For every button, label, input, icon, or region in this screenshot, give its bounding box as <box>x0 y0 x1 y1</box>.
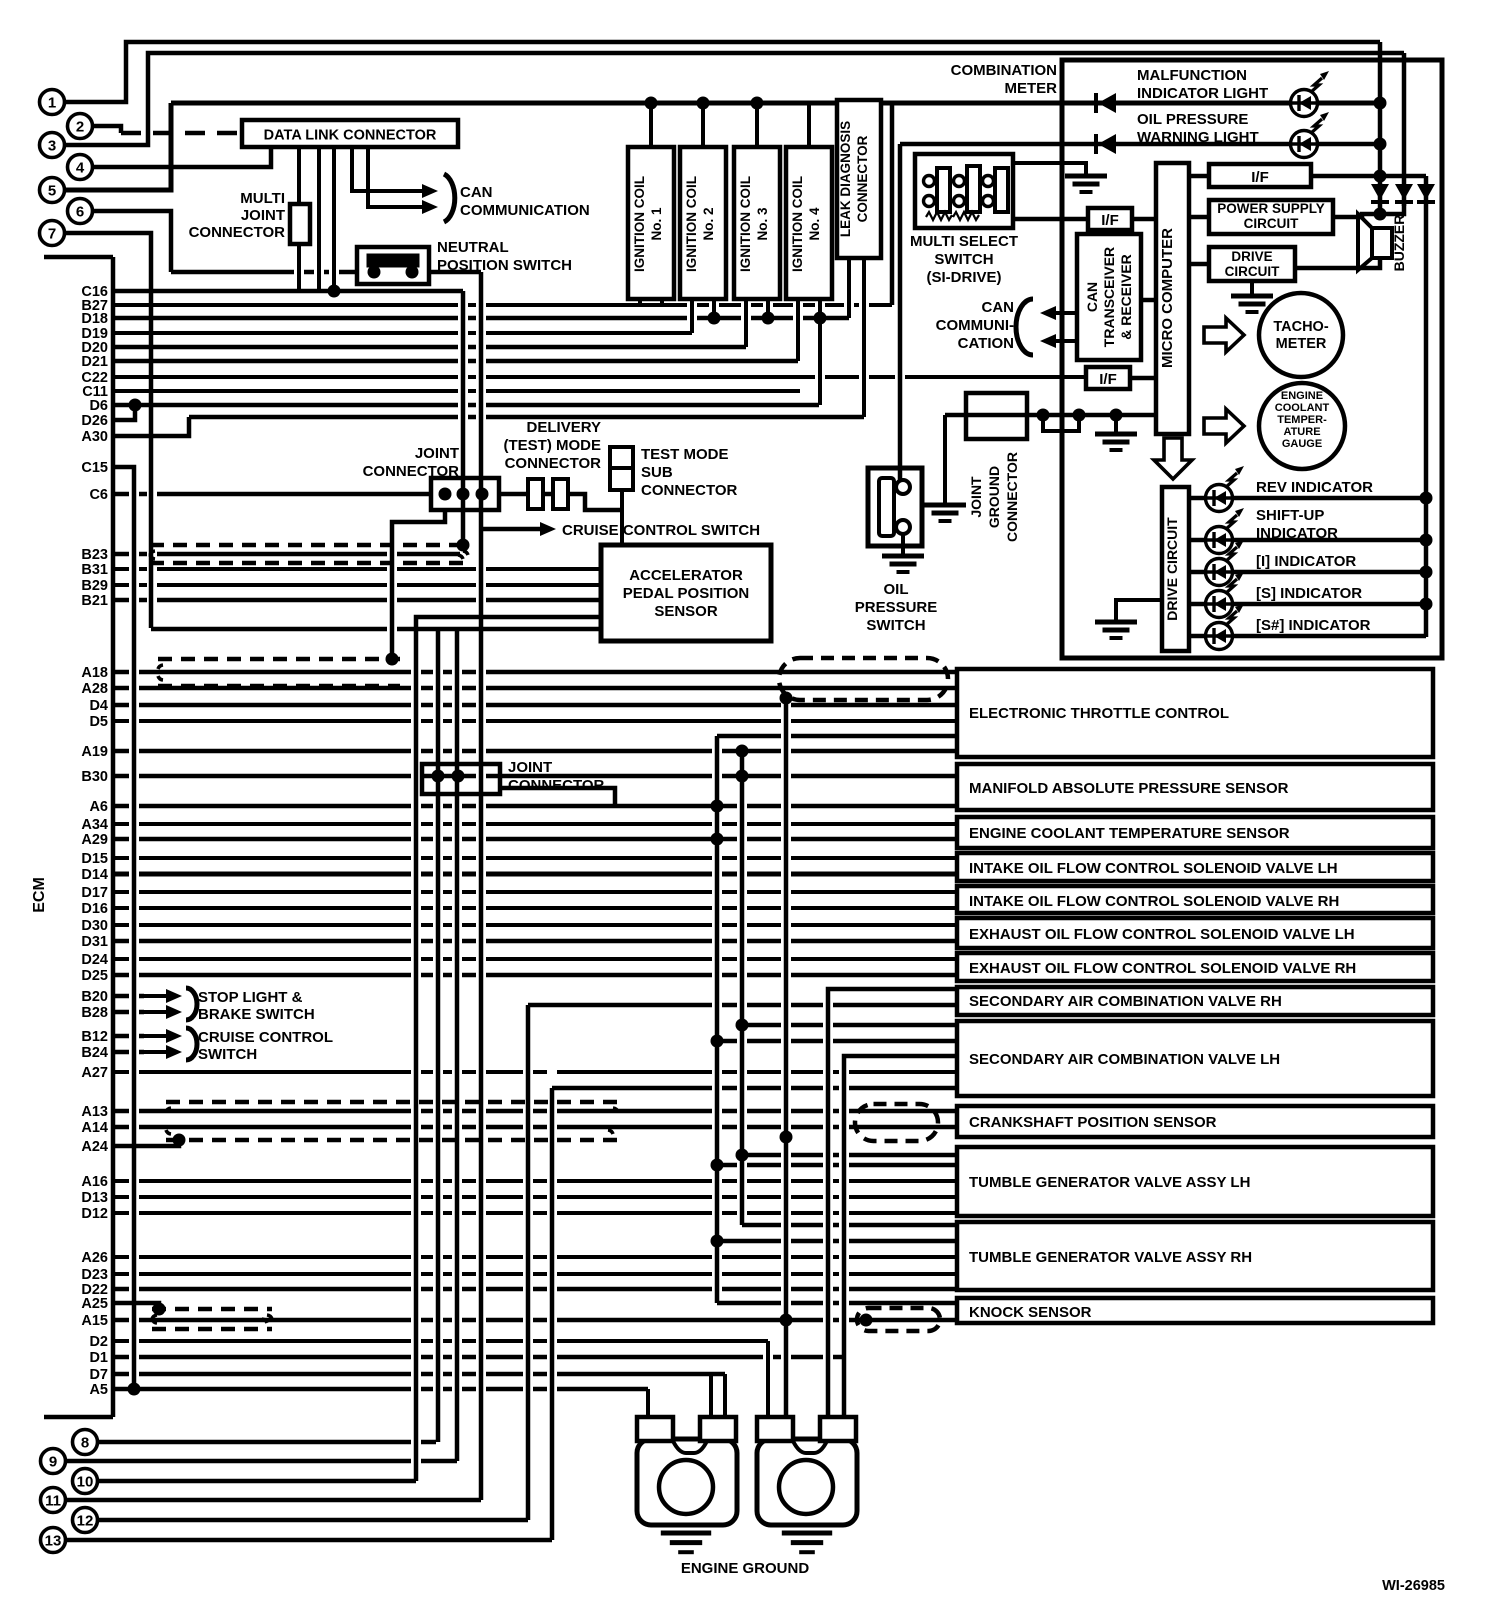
coil4 left pin <box>796 299 800 361</box>
ECM connector body <box>44 255 113 260</box>
svg-text:A26: A26 <box>81 1250 108 1266</box>
indicator wire right 4 <box>1232 602 1426 607</box>
svg-text:A27: A27 <box>81 1065 108 1081</box>
wire A30 stepped <box>113 417 189 436</box>
svg-text:8: 8 <box>81 1435 89 1452</box>
buzzer symbol <box>1358 214 1372 270</box>
wire right vertical 1 <box>1378 42 1383 214</box>
wire v742 branch tumble-lh <box>742 1153 957 1158</box>
svg-text:D5: D5 <box>89 714 108 730</box>
I/F box top <box>1209 164 1311 187</box>
wire MC to IF top <box>1189 174 1209 179</box>
svg-text:D31: D31 <box>81 934 108 950</box>
svg-text:CONNECTOR: CONNECTOR <box>1004 452 1020 542</box>
svg-text:ACCELERATOR: ACCELERATOR <box>629 567 743 584</box>
J2 dot B <box>452 770 465 783</box>
svg-text:A19: A19 <box>81 744 108 760</box>
wire circle3 to second bus <box>65 53 1404 145</box>
junction dot A19 <box>736 745 749 758</box>
ETC shield <box>779 658 948 700</box>
svg-text:[S#] INDICATOR: [S#] INDICATOR <box>1256 617 1371 634</box>
indicator led 2 <box>1206 527 1233 554</box>
wire circle13 <box>66 1538 552 1543</box>
wire circle1 to top bus <box>65 42 1380 102</box>
wire vertical v717 knock branch <box>717 1301 957 1306</box>
svg-text:JOINT: JOINT <box>508 759 552 776</box>
cruise brace <box>186 1028 197 1060</box>
svg-text:B12: B12 <box>81 1029 108 1045</box>
svg-text:DATA LINK CONNECTOR: DATA LINK CONNECTOR <box>264 128 437 144</box>
wire circle2 to data link connector (dashed) <box>93 126 121 133</box>
wire A34 <box>113 822 957 826</box>
tumble generator valve assy RH box <box>957 1222 1433 1290</box>
svg-text:CRUISE CONTROL SWITCH: CRUISE CONTROL SWITCH <box>562 522 760 539</box>
wire D2 drop <box>766 1341 770 1417</box>
wire CAN arrow lo <box>1054 339 1077 343</box>
wire vertical v742 <box>740 751 745 1225</box>
secondary air combination valve LH box <box>957 1021 1433 1096</box>
junction dot coil bus 3 <box>751 97 764 110</box>
svg-text:10: 10 <box>77 1474 94 1491</box>
svg-text:EXHAUST OIL FLOW CONTROL SOLEN: EXHAUST OIL FLOW CONTROL SOLENOID VALVE … <box>969 926 1355 943</box>
OPS contact top <box>896 480 910 494</box>
diode D-c <box>1417 184 1435 200</box>
wire APS pin5 vertical a <box>436 629 441 1442</box>
DLC pin wire to multi joint connector <box>297 147 301 204</box>
wire v717 branch tumble-rh <box>717 1239 957 1244</box>
svg-text:JOINT: JOINT <box>968 476 984 518</box>
wire A24 to shield <box>113 1140 179 1146</box>
stop light brace <box>186 988 197 1020</box>
svg-text:2: 2 <box>76 119 84 136</box>
wire B20 arrow <box>113 994 144 999</box>
junction dot B23 shield <box>457 539 470 552</box>
multi joint connector box <box>290 204 310 244</box>
MIL led <box>1291 90 1318 117</box>
wire oil lamp row <box>900 142 1380 147</box>
svg-text:COOLANT: COOLANT <box>1275 402 1330 414</box>
svg-text:6: 6 <box>76 204 84 221</box>
MSS contact 1 <box>924 176 935 187</box>
wire B27 <box>113 303 892 307</box>
svg-text:ELECTRONIC THROTTLE CONTROL: ELECTRONIC THROTTLE CONTROL <box>969 705 1229 722</box>
svg-text:I/F: I/F <box>1101 212 1119 229</box>
DC ground <box>1231 294 1273 299</box>
wire A15 <box>113 1318 957 1323</box>
svg-text:D4: D4 <box>89 698 108 714</box>
svg-text:D12: D12 <box>81 1206 108 1222</box>
svg-text:COMBINATION: COMBINATION <box>951 62 1057 79</box>
crank shield top <box>166 1100 618 1105</box>
coil2 left pin <box>690 299 694 333</box>
svg-text:(SI-DRIVE): (SI-DRIVE) <box>927 269 1002 286</box>
svg-text:METER: METER <box>1005 80 1058 97</box>
node 2 (circled connector 2) <box>68 114 93 139</box>
svg-text:11: 11 <box>45 1493 61 1510</box>
node 13 (circled 13) <box>41 1528 66 1553</box>
svg-text:B31: B31 <box>81 562 108 578</box>
wire circle4 to data link connector <box>93 147 271 167</box>
svg-text:SHIFT-UP: SHIFT-UP <box>1256 507 1324 524</box>
svg-text:METER: METER <box>1276 336 1327 352</box>
oil pressure switch box <box>868 468 922 546</box>
cruise arrow <box>535 527 542 531</box>
junction dot buzzer top <box>1374 208 1387 221</box>
data link connector box <box>242 120 458 147</box>
svg-text:B23: B23 <box>81 547 108 563</box>
svg-text:A24: A24 <box>81 1139 108 1155</box>
svg-text:D13: D13 <box>81 1190 108 1206</box>
ignition coil No.4 top wire <box>807 103 811 147</box>
wire D21 <box>113 359 798 364</box>
junction dot A15-v786 <box>780 1314 793 1327</box>
J2 dot A <box>432 770 445 783</box>
svg-text:CONNECTOR: CONNECTOR <box>508 777 605 794</box>
wire D13 <box>113 1195 957 1199</box>
wire A19 <box>113 749 957 754</box>
ignition coil No.2 top wire <box>701 103 705 147</box>
svg-text:BRAKE SWITCH: BRAKE SWITCH <box>198 1006 315 1023</box>
junction dot OIL <box>1374 138 1387 151</box>
wire v1426 to indicators <box>1424 176 1429 637</box>
B23 shield hooks <box>150 551 155 559</box>
micro computer box <box>1156 163 1189 434</box>
svg-text:LEAK DIAGNOSIS: LEAK DIAGNOSIS <box>838 121 853 237</box>
indicator led wire 4 <box>1189 602 1206 607</box>
wire A18 <box>113 670 957 675</box>
junction dot A18 shield <box>386 653 399 666</box>
J1 dot B <box>457 488 470 501</box>
junction dot v717 sec-lh <box>711 1035 724 1048</box>
svg-text:D15: D15 <box>81 851 108 867</box>
MSS contact 3 <box>954 176 965 187</box>
svg-text:TEST MODE: TEST MODE <box>641 446 729 463</box>
junction dot v742 tumble-lh <box>736 1149 749 1162</box>
wire B28 arrow <box>113 1010 144 1015</box>
svg-text:A28: A28 <box>81 681 108 697</box>
wire D2 <box>113 1339 768 1343</box>
A18 shield bottom <box>158 684 400 689</box>
DLC pin wire 2 <box>317 147 321 289</box>
junction dot indicator 1 <box>1420 492 1433 505</box>
wire D6 riser to D18 <box>818 318 822 405</box>
wire C6 j1 to delivery conn <box>499 492 528 497</box>
JGC ground drop <box>943 415 947 505</box>
ignition coil U3 box <box>734 147 780 299</box>
indicator led 3 <box>1206 559 1233 586</box>
svg-text:OIL PRESSURE: OIL PRESSURE <box>1137 111 1248 128</box>
B23 shield top dash <box>150 543 468 548</box>
svg-text:D6: D6 <box>89 398 108 414</box>
wire NPS riser through J1 (to cruise / joint conn 2) <box>479 272 484 1500</box>
svg-text:A16: A16 <box>81 1174 108 1190</box>
svg-text:CIRCUIT: CIRCUIT <box>1244 216 1299 231</box>
A18 shield top <box>158 657 400 662</box>
svg-text:CAN: CAN <box>982 299 1015 316</box>
svg-text:CAN: CAN <box>1084 282 1100 312</box>
wire A13 <box>113 1109 957 1114</box>
crankshaft position sensor box <box>957 1106 1433 1137</box>
svg-text:CIRCUIT: CIRCUIT <box>1225 264 1280 279</box>
node 1 (circled connector 1) <box>40 90 65 115</box>
svg-text:ECM: ECM <box>31 877 48 913</box>
I/F box bottom <box>1086 367 1130 389</box>
svg-text:A15: A15 <box>81 1313 108 1329</box>
A18 shield hooks <box>158 665 163 680</box>
indicator led 1 <box>1206 485 1233 512</box>
svg-text:[S] INDICATOR: [S] INDICATOR <box>1256 585 1362 602</box>
svg-text:B21: B21 <box>81 593 108 609</box>
CAN lo arrow <box>410 205 424 209</box>
delivery connector pin 2 <box>553 479 568 509</box>
OIL led <box>1291 131 1318 158</box>
svg-text:A30: A30 <box>81 429 108 445</box>
svg-text:D25: D25 <box>81 968 108 984</box>
svg-text:MANIFOLD ABSOLUTE PRESSURE SEN: MANIFOLD ABSOLUTE PRESSURE SENSOR <box>969 780 1289 797</box>
wire APS pin4 to vertical <box>416 617 601 1481</box>
tumble generator valve assy LH box <box>957 1147 1433 1216</box>
engine ground clamp right <box>757 1439 857 1525</box>
svg-text:TRANSCEIVER: TRANSCEIVER <box>1101 247 1117 347</box>
svg-text:TUMBLE GENERATOR VALVE ASSY LH: TUMBLE GENERATOR VALVE ASSY LH <box>969 1174 1250 1191</box>
wire v552 (sec-lh feed) <box>552 1086 957 1091</box>
electronic throttle control box <box>957 669 1433 757</box>
oil pressure switch slot <box>879 478 894 536</box>
svg-text:MULTI: MULTI <box>240 190 285 207</box>
wire D26 to D6 <box>113 405 135 420</box>
knock sensor box <box>957 1298 1433 1323</box>
svg-text:IGNITION COIL: IGNITION COIL <box>738 176 753 272</box>
wire delivery to test-mode-sub <box>568 494 622 510</box>
svg-text:JOINT: JOINT <box>415 445 459 462</box>
wire B27 riser to MIL <box>890 103 895 305</box>
junction dot coil2-D18 <box>708 312 721 325</box>
junction dot D6-D26 <box>129 399 142 412</box>
block arrow tacho <box>1204 318 1244 352</box>
svg-text:A13: A13 <box>81 1104 108 1120</box>
svg-text:D21: D21 <box>81 354 108 370</box>
wire vertical v844 (sec-lh to ground) <box>844 1056 957 1417</box>
node 10 (circled 10) <box>73 1469 98 1494</box>
svg-text:IGNITION COIL: IGNITION COIL <box>790 176 805 272</box>
wire MSS to IF mid <box>1013 217 1088 222</box>
secondary air combination valve RH box <box>957 987 1433 1015</box>
wire D5 <box>113 719 957 723</box>
exhaust oil flow control solenoid valve RH box <box>957 953 1433 981</box>
node 7 (circled connector 7) <box>40 221 65 246</box>
coil3 right pin <box>766 299 770 318</box>
junction dot crank shield v786 <box>780 1131 793 1144</box>
svg-text:A29: A29 <box>81 832 108 848</box>
wire D24 <box>113 957 957 961</box>
svg-text:B29: B29 <box>81 578 108 594</box>
wire A6 <box>113 804 957 809</box>
svg-text:C15: C15 <box>81 460 108 476</box>
junction dot A6-v717 <box>711 800 724 813</box>
node 6 (circled connector 6) <box>68 199 93 224</box>
wire D1 <box>113 1355 844 1360</box>
wire A28 <box>113 686 957 691</box>
svg-text:WARNING LIGHT: WARNING LIGHT <box>1137 129 1259 146</box>
junction dot v1380 IF <box>1374 170 1387 183</box>
junction dot v717 tumble-lh <box>711 1159 724 1172</box>
svg-text:KNOCK SENSOR: KNOCK SENSOR <box>969 1304 1092 1321</box>
svg-text:INTAKE OIL FLOW CONTROL SOLENO: INTAKE OIL FLOW CONTROL SOLENOID VALVE R… <box>969 893 1339 910</box>
CAN bracket 2 <box>1016 299 1033 355</box>
delivery connector pin 1 <box>528 479 543 509</box>
wire circle6 to neutral position switch <box>93 211 171 272</box>
joint ground connector wire <box>945 413 1156 418</box>
combination meter box <box>1062 60 1442 658</box>
svg-text:A6: A6 <box>89 799 108 815</box>
svg-text:NEUTRAL: NEUTRAL <box>437 239 509 256</box>
svg-text:EXHAUST OIL FLOW CONTROL SOLEN: EXHAUST OIL FLOW CONTROL SOLENOID VALVE … <box>969 960 1356 977</box>
svg-text:BUZZER: BUZZER <box>1391 215 1407 272</box>
svg-text:COMMUNI-: COMMUNI- <box>936 317 1014 334</box>
LDC left pin wire <box>847 258 851 318</box>
OPS ground <box>882 554 924 559</box>
wire D25 <box>113 973 957 978</box>
wire B30 <box>113 774 957 779</box>
J1 dot C <box>476 488 489 501</box>
svg-text:MICRO COMPUTER: MICRO COMPUTER <box>1159 228 1176 368</box>
svg-text:A34: A34 <box>81 817 108 833</box>
svg-text:CAN: CAN <box>460 184 493 201</box>
svg-text:CRUISE CONTROL: CRUISE CONTROL <box>198 1029 333 1046</box>
wire D16 <box>113 906 957 910</box>
DLC pin wire to CAN hi <box>352 147 410 191</box>
power supply circuit box <box>1209 200 1333 234</box>
JGC dot 2 <box>1073 409 1086 422</box>
wire D12 <box>113 1211 957 1215</box>
MSS inner bar 2 <box>967 166 980 212</box>
svg-text:B28: B28 <box>81 1005 108 1021</box>
svg-text:5: 5 <box>48 183 56 200</box>
svg-text:IGNITION COIL: IGNITION COIL <box>684 176 699 272</box>
junction dot coil4-D18 <box>814 312 827 325</box>
junction dot v717 tumble-rh <box>711 1235 724 1248</box>
drive circuit box 1 <box>1209 247 1295 281</box>
joint connector J1 box <box>431 478 499 510</box>
junction dot indicator 2 <box>1420 534 1433 547</box>
wire circle9 <box>66 1459 457 1464</box>
tachometer circle <box>1259 293 1343 377</box>
wire IF bottom to MC <box>1130 376 1156 381</box>
svg-text:SWITCH: SWITCH <box>866 617 925 634</box>
wire vertical v786 (shield drain) <box>784 698 789 1417</box>
svg-text:TACHO-: TACHO- <box>1273 319 1328 335</box>
wire D23 <box>113 1272 957 1276</box>
JGC step <box>1043 415 1079 431</box>
wire D22 <box>113 1287 957 1292</box>
wire MSS to ground <box>1013 163 1086 176</box>
svg-text:PRESSURE: PRESSURE <box>855 599 938 616</box>
wire B31 <box>113 567 601 571</box>
wire A16 <box>113 1179 957 1183</box>
wire vertical v828 (sec-rh to ground) <box>828 989 957 1417</box>
wire IF top to v1426 <box>1311 174 1426 179</box>
wire B29 <box>113 583 601 587</box>
wire between delivery pins <box>543 492 553 497</box>
wire CAN arrow hi <box>1054 311 1077 315</box>
indicator led wire 1 <box>1189 496 1206 501</box>
engine coolant temperature sensor box <box>957 817 1433 848</box>
MSS contact 4 <box>954 196 965 207</box>
wire APS pin5 vertical b <box>455 629 460 1461</box>
wire J2 to A6 line <box>500 788 615 806</box>
svg-text:B24: B24 <box>81 1045 108 1061</box>
wire v528 (sec-rh feed) <box>528 1003 957 1008</box>
junction dot indicator 4 <box>1420 598 1433 611</box>
junction dot A15 shield <box>860 1314 873 1327</box>
wire A27 <box>113 1070 957 1074</box>
junction dot MIL <box>1374 97 1387 110</box>
indicator led wire 3 <box>1189 570 1206 575</box>
svg-text:D30: D30 <box>81 918 108 934</box>
svg-text:D1: D1 <box>89 1350 108 1366</box>
wire right vertical 2 <box>1402 53 1407 206</box>
block arrow gauge <box>1204 409 1244 443</box>
svg-text:GAUGE: GAUGE <box>1282 438 1322 450</box>
svg-text:A18: A18 <box>81 665 108 681</box>
LDC right pin wire <box>862 258 866 417</box>
ignition coil U4 box <box>786 147 832 299</box>
svg-text:SECONDARY AIR COMBINATION VALV: SECONDARY AIR COMBINATION VALVE LH <box>969 1051 1280 1068</box>
joint connector J2 box <box>422 764 500 794</box>
svg-text:3: 3 <box>48 138 56 155</box>
multi joint connector wire <box>297 244 301 291</box>
svg-text:CONNECTOR: CONNECTOR <box>189 224 286 241</box>
exhaust oil flow control solenoid valve LH box <box>957 918 1433 948</box>
oil pressure switch riser <box>898 144 903 486</box>
indicator wire right 5 <box>1232 634 1426 639</box>
junction dot A25 shield <box>153 1303 166 1316</box>
svg-text:I/F: I/F <box>1251 169 1269 186</box>
wire C15 to vertical <box>113 467 134 1389</box>
drive circuit box 2 <box>1162 487 1189 651</box>
wire D20 <box>113 345 746 350</box>
indicator led wire 5 <box>1189 634 1206 639</box>
svg-text:ENGINE: ENGINE <box>1281 390 1323 402</box>
wire B24 arrow <box>113 1050 144 1055</box>
svg-text:D18: D18 <box>81 311 108 327</box>
DC ground stem <box>1250 281 1254 296</box>
ignition coil No.3 top wire <box>755 103 759 147</box>
ignition coil U1 box <box>628 147 674 299</box>
wire C22 to I/F <box>113 375 1086 379</box>
wire v717 branch sec-lh <box>717 1039 957 1044</box>
JGC dot3 ground <box>1095 432 1137 437</box>
ignition coil supply bus <box>171 101 1380 106</box>
leak diagnosis connector box <box>837 100 881 258</box>
svg-text:INDICATOR: INDICATOR <box>1256 525 1338 542</box>
MSS inner bar 1 <box>937 168 950 212</box>
svg-text:SENSOR: SENSOR <box>654 603 718 620</box>
svg-text:REV INDICATOR: REV INDICATOR <box>1256 479 1373 496</box>
svg-text:SWITCH: SWITCH <box>198 1046 257 1063</box>
junction dot coil bus 1 <box>645 97 658 110</box>
MSS ground <box>1065 174 1107 179</box>
wire circle8 <box>98 1440 436 1445</box>
svg-text:ATURE: ATURE <box>1283 426 1320 438</box>
svg-text:TUMBLE GENERATOR VALVE ASSY RH: TUMBLE GENERATOR VALVE ASSY RH <box>969 1249 1252 1266</box>
svg-text:A14: A14 <box>81 1120 108 1136</box>
svg-text:CONNECTOR: CONNECTOR <box>855 135 870 222</box>
wire D15 <box>113 856 957 860</box>
wire vertical v717 top <box>717 734 957 739</box>
ignition coil No.1 top wire <box>649 103 653 147</box>
JGC ground <box>924 503 966 508</box>
